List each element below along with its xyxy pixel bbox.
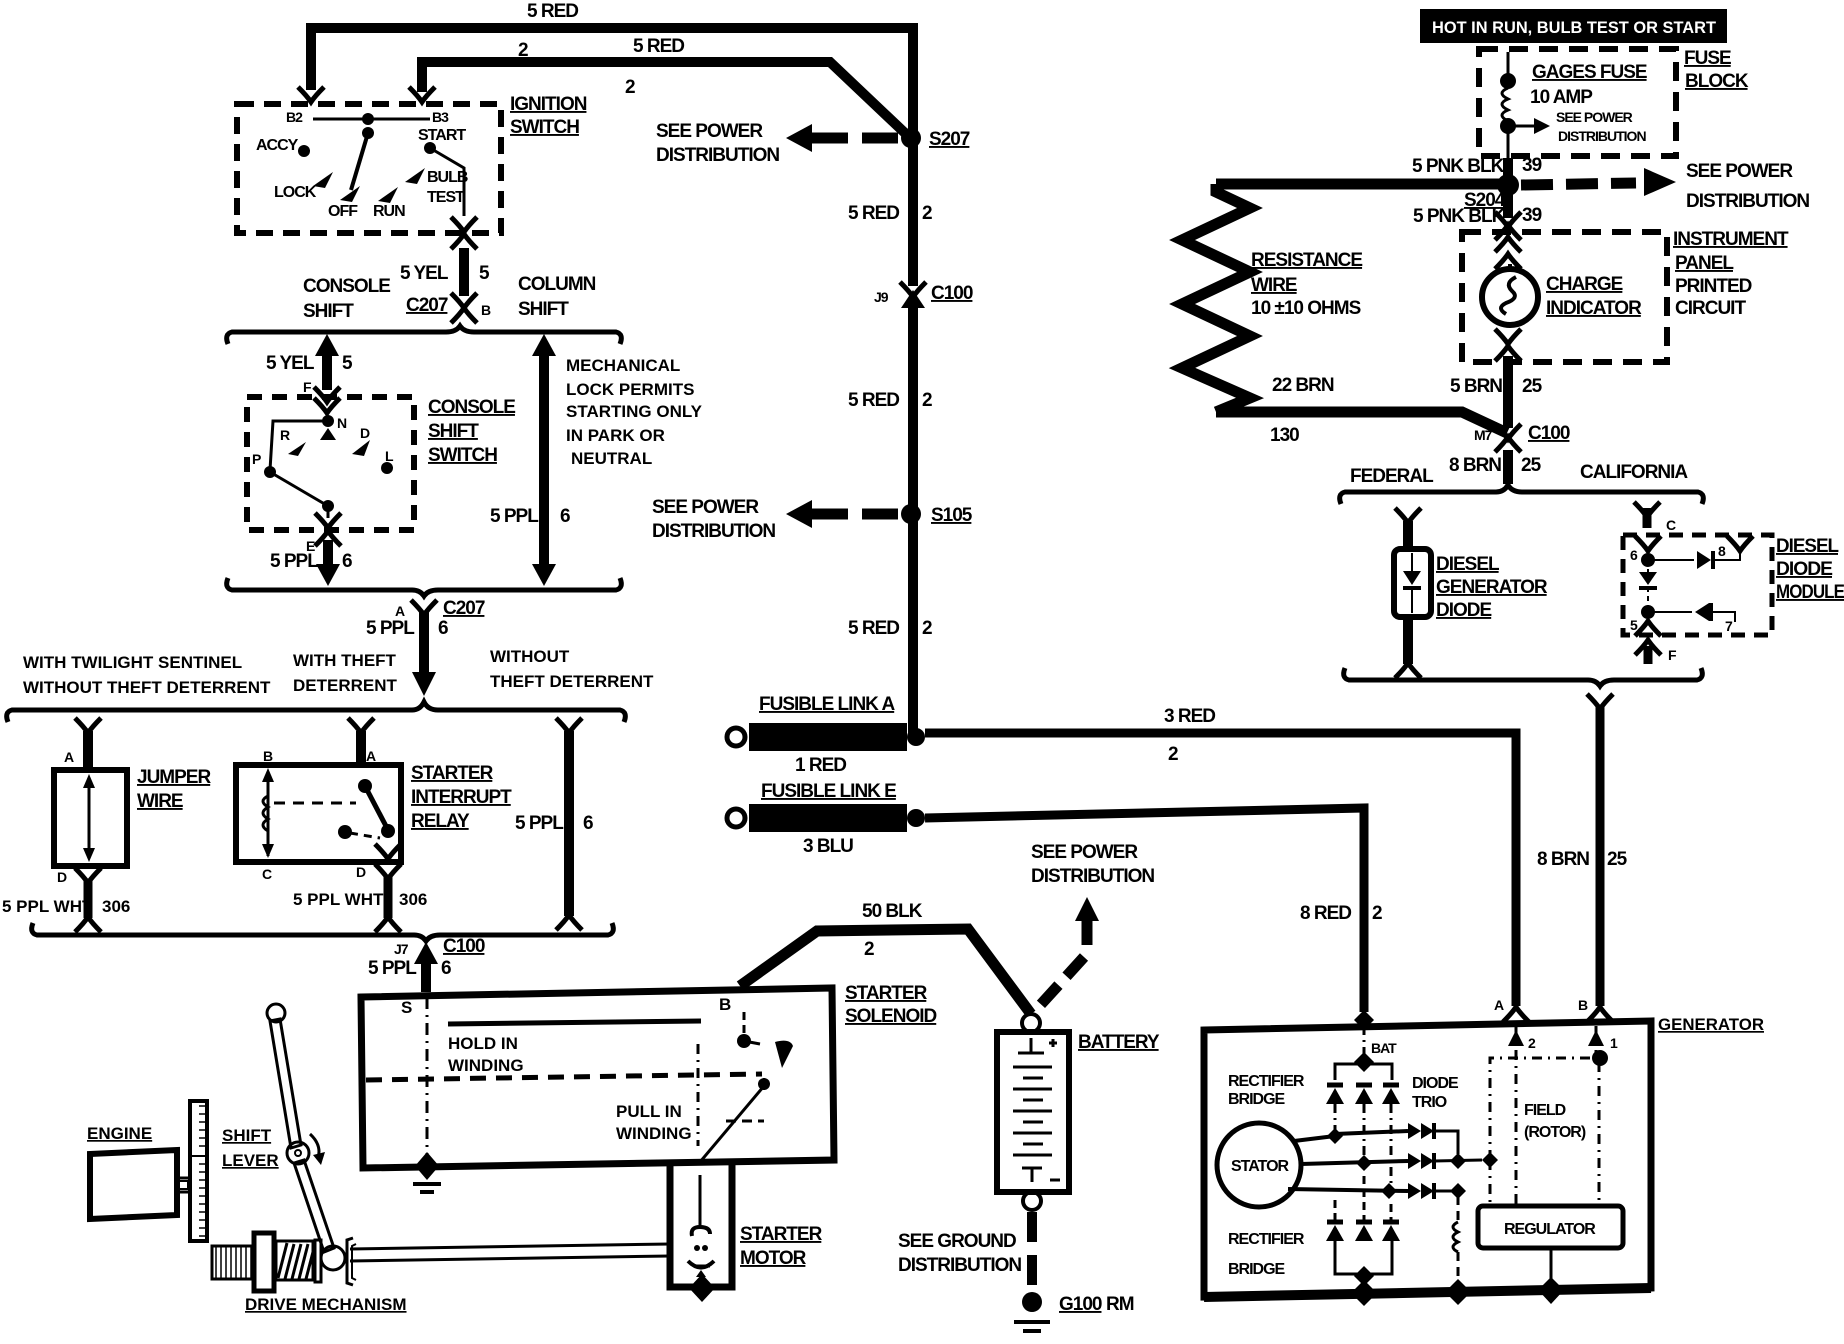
gages fuse element bbox=[1502, 88, 1508, 121]
fuse bottom node bbox=[1500, 118, 1516, 134]
ignition rotor node 2 bbox=[362, 127, 374, 139]
svg-text:FUSE: FUSE bbox=[1684, 48, 1731, 69]
svg-text:5 RED: 5 RED bbox=[848, 390, 899, 411]
svg-text:TRIO: TRIO bbox=[1412, 1094, 1447, 1111]
svg-text:WINDING: WINDING bbox=[616, 1124, 692, 1143]
svg-text:BLOCK: BLOCK bbox=[1685, 71, 1749, 92]
starter solenoid box bbox=[361, 988, 834, 1168]
N contact dot bbox=[322, 415, 334, 427]
svg-text:6: 6 bbox=[583, 813, 593, 834]
phase line 1 dash bbox=[1334, 1104, 1337, 1130]
wire 5 PPL below console switch bbox=[323, 540, 333, 576]
terminal B arrowhead bbox=[1588, 1030, 1604, 1046]
wire 5 PPL column shift (tall) bbox=[539, 344, 549, 576]
connector relay to bracket bbox=[375, 917, 401, 932]
svg-text:S207: S207 bbox=[929, 129, 970, 150]
connector at box bottom bbox=[315, 513, 341, 528]
svg-text:RELAY: RELAY bbox=[411, 811, 470, 832]
pull-in dashed horizontal bbox=[726, 1120, 764, 1123]
connector without-theft top bbox=[556, 718, 582, 733]
relay coil line bbox=[267, 772, 270, 856]
see power distribution arrow at S105 bbox=[786, 500, 812, 528]
connector at B3 bbox=[409, 87, 435, 102]
svg-text:STARTING ONLY: STARTING ONLY bbox=[566, 402, 703, 421]
svg-text:DIESEL: DIESEL bbox=[1776, 536, 1839, 557]
charge indicator bulb circle bbox=[1482, 269, 1538, 325]
relay aux contact dot bbox=[338, 825, 352, 839]
ignition rotor arm to OFF bbox=[351, 133, 368, 190]
resistance wire zigzag bbox=[1182, 184, 1250, 412]
bulb lead top bbox=[1508, 264, 1512, 270]
svg-text:B3: B3 bbox=[432, 109, 449, 125]
BULB TEST mark bbox=[405, 168, 425, 184]
connector california branch bbox=[1634, 502, 1660, 517]
B contact dot bbox=[737, 1034, 751, 1048]
arrowhead up column wire bbox=[532, 334, 556, 356]
svg-text:5 PPL: 5 PPL bbox=[490, 506, 539, 527]
svg-text:DRIVE MECHANISM: DRIVE MECHANISM bbox=[245, 1295, 407, 1314]
connector jumper bottom bbox=[75, 868, 101, 883]
plunger line bbox=[700, 1086, 764, 1162]
connector inside panel top bbox=[1495, 237, 1521, 252]
svg-text:B: B bbox=[263, 748, 273, 764]
svg-text:6: 6 bbox=[342, 551, 352, 572]
svg-text:5 BRN: 5 BRN bbox=[1450, 376, 1502, 397]
svg-text:25: 25 bbox=[1521, 455, 1542, 476]
drive mechanism collar bbox=[254, 1233, 274, 1291]
svg-text:RECTIFIER: RECTIFIER bbox=[1228, 1073, 1305, 1090]
sense resistor squiggle bbox=[1453, 1222, 1458, 1252]
connector below bulb bbox=[1495, 329, 1521, 344]
connector to generator B wire bbox=[1587, 694, 1613, 709]
svg-text:5 PPL WHT: 5 PPL WHT bbox=[2, 897, 93, 916]
svg-text:22 BRN: 22 BRN bbox=[1272, 375, 1334, 396]
svg-text:2: 2 bbox=[922, 203, 932, 224]
svg-text:C207: C207 bbox=[406, 295, 448, 316]
svg-text:5 YEL: 5 YEL bbox=[400, 263, 449, 284]
svg-text:GAGES FUSE: GAGES FUSE bbox=[1532, 62, 1647, 83]
engine box bbox=[90, 1150, 177, 1219]
connector at B2 bbox=[298, 87, 324, 102]
svg-text:SHIFT: SHIFT bbox=[303, 301, 354, 322]
see power arrow inside fuse box bbox=[1512, 125, 1538, 128]
svg-text:THEFT DETERRENT: THEFT DETERRENT bbox=[490, 672, 654, 691]
rectifier top bracket bbox=[1335, 1064, 1392, 1080]
sense line dash to resistor bbox=[1457, 1196, 1460, 1222]
shift lever pivot bbox=[287, 1142, 309, 1164]
svg-text:WIRE: WIRE bbox=[1251, 275, 1297, 296]
wire 3 RED link A to generator A bbox=[925, 733, 1516, 1006]
rectifier bottom diode 3 bbox=[1383, 1220, 1399, 1225]
ground node dot bbox=[1022, 1292, 1042, 1312]
svg-text:3 BLU: 3 BLU bbox=[803, 836, 853, 857]
wire 5 PPL without theft bbox=[564, 731, 574, 916]
ignition switch box (dashed) bbox=[237, 104, 501, 233]
svg-text:WINDING: WINDING bbox=[448, 1056, 524, 1075]
motor ground diamond bbox=[689, 1274, 715, 1302]
wire 5 PPL WHT (jumper) bbox=[84, 880, 93, 918]
phase 3 end diamond bbox=[1450, 1183, 1466, 1199]
START contact dot bbox=[424, 142, 436, 154]
fusible link E eyelet bbox=[727, 809, 745, 827]
junction S105 bbox=[901, 504, 921, 524]
connector at console switch box top bbox=[314, 387, 340, 402]
svg-text:DIODE: DIODE bbox=[1436, 600, 1492, 621]
svg-text:BRIDGE: BRIDGE bbox=[1228, 1091, 1286, 1108]
instrument panel box (dashed) bbox=[1462, 232, 1667, 362]
wire 5 RED from ignition B3 to S207 bbox=[422, 62, 906, 134]
svg-text:MECHANICAL: MECHANICAL bbox=[566, 356, 680, 375]
relay dashed link bbox=[274, 802, 356, 805]
wire N to P bbox=[270, 421, 328, 470]
svg-text:306: 306 bbox=[102, 897, 130, 916]
D position mark bbox=[352, 440, 370, 456]
svg-text:SWITCH: SWITCH bbox=[428, 445, 497, 466]
svg-text:25: 25 bbox=[1522, 376, 1543, 397]
svg-text:D: D bbox=[57, 869, 67, 885]
rotor contact diamond bbox=[320, 428, 336, 440]
regulator ground lead bbox=[1550, 1248, 1553, 1286]
sense line dash lower bbox=[1457, 1252, 1460, 1286]
svg-text:39: 39 bbox=[1522, 205, 1542, 226]
BAT dash-dot lead bbox=[1363, 1026, 1366, 1056]
phase 2 diamond bbox=[1356, 1155, 1372, 1171]
wire from START to C207 bbox=[430, 148, 464, 216]
pull-in dash-dot vertical bbox=[697, 1044, 700, 1146]
rectifier top diode 3 bbox=[1383, 1083, 1399, 1088]
drive plate bbox=[315, 1240, 321, 1282]
svg-text:ENGINE: ENGINE bbox=[87, 1124, 152, 1143]
phase line 3 dash bbox=[1390, 1104, 1393, 1184]
svg-text:5: 5 bbox=[479, 263, 490, 284]
field box dashed bbox=[1490, 1058, 1599, 1160]
svg-text:J9: J9 bbox=[874, 289, 889, 305]
R position mark bbox=[288, 442, 306, 456]
flywheel bbox=[190, 1101, 207, 1241]
relay contact arm bbox=[365, 786, 387, 828]
svg-text:C: C bbox=[1666, 517, 1676, 533]
svg-text:FEDERAL: FEDERAL bbox=[1350, 466, 1434, 487]
wire to diode 1 bbox=[1648, 559, 1694, 561]
wire 8 BRN C100 to bracket bbox=[1503, 450, 1513, 484]
connector at box bottom (ignition output) bbox=[451, 217, 477, 232]
bottom diode leads dash bbox=[1334, 1200, 1337, 1220]
S line end diamond bbox=[415, 1152, 439, 1180]
wire 8 RED link E to generator BAT bbox=[925, 808, 1364, 1012]
svg-text:BATTERY: BATTERY bbox=[1078, 1032, 1160, 1053]
svg-text:FIELD: FIELD bbox=[1524, 1102, 1566, 1119]
junction S204 bbox=[1497, 174, 1519, 196]
svg-text:LOCK PERMITS: LOCK PERMITS bbox=[566, 380, 694, 399]
svg-text:2: 2 bbox=[1372, 903, 1382, 924]
svg-text:LEVER: LEVER bbox=[222, 1151, 279, 1170]
svg-text:SHIFT: SHIFT bbox=[518, 299, 569, 320]
phase line 2 dash bbox=[1363, 1104, 1366, 1156]
diode inside (lead) bbox=[1411, 553, 1413, 572]
connector federal branch bbox=[1395, 508, 1421, 523]
svg-text:C100: C100 bbox=[931, 283, 973, 304]
connector C207 (ignition to shift) bbox=[451, 293, 477, 308]
wire 5 PPL WHT (relay) bbox=[384, 876, 393, 918]
diode lead lower bbox=[1411, 588, 1413, 613]
svg-text:GENERATOR: GENERATOR bbox=[1436, 577, 1548, 598]
connector inside module bottom bbox=[1635, 621, 1661, 636]
arrowhead down bbox=[412, 672, 436, 696]
connector federal bottom bbox=[1395, 663, 1421, 678]
wire P to common bbox=[270, 472, 328, 506]
module middle diode (down) bbox=[1639, 572, 1657, 585]
svg-text:S105: S105 bbox=[931, 505, 973, 526]
svg-text:C: C bbox=[262, 866, 272, 882]
BAT junction diamond bbox=[1354, 1052, 1374, 1072]
contact lower dot bbox=[758, 1078, 770, 1090]
hold in winding top line bbox=[448, 1021, 701, 1024]
drive mechanism splined shaft bbox=[212, 1246, 254, 1279]
svg-text:3 RED: 3 RED bbox=[1164, 706, 1215, 727]
module node upper bbox=[1641, 553, 1655, 567]
svg-text:2: 2 bbox=[1168, 744, 1178, 765]
svg-text:DIODE: DIODE bbox=[1776, 559, 1832, 580]
wire 5 YEL ignition to C207 bbox=[459, 248, 469, 296]
svg-text:J7: J7 bbox=[394, 941, 409, 957]
svg-text:5 YEL: 5 YEL bbox=[266, 353, 315, 374]
fusible link A body bbox=[749, 723, 907, 751]
starter motor box bbox=[670, 1161, 732, 1287]
svg-text:2: 2 bbox=[922, 390, 932, 411]
ACCY contact dot bbox=[298, 145, 310, 157]
svg-text:DIODE: DIODE bbox=[1412, 1075, 1459, 1092]
svg-text:PULL IN: PULL IN bbox=[616, 1102, 682, 1121]
connector without-theft bottom bbox=[556, 915, 582, 930]
svg-text:6: 6 bbox=[438, 618, 448, 639]
see power distribution dashed arrow (S204) bbox=[1521, 183, 1636, 185]
rectifier top diode 2 bbox=[1356, 1083, 1372, 1088]
wire 5 PPL to solenoid with up arrow bbox=[421, 952, 431, 992]
regulator ground diamond bbox=[1539, 1278, 1563, 1304]
svg-text:WITH THEFT: WITH THEFT bbox=[293, 651, 397, 670]
jumper wire box bbox=[54, 770, 127, 866]
svg-text:IGNITION: IGNITION bbox=[510, 94, 587, 115]
svg-text:GENERATOR: GENERATOR bbox=[1658, 1015, 1764, 1034]
svg-text:R: R bbox=[280, 427, 290, 443]
svg-text:5 PNK BLK: 5 PNK BLK bbox=[1412, 156, 1505, 177]
connector relay bottom inside bbox=[375, 844, 401, 859]
svg-text:5 PNK BLK: 5 PNK BLK bbox=[1413, 206, 1506, 227]
B terminal dashes bbox=[743, 1012, 746, 1036]
svg-text:D: D bbox=[356, 864, 366, 880]
lead to bottom bus bbox=[1363, 1276, 1366, 1292]
svg-text:5 PPL: 5 PPL bbox=[515, 813, 564, 834]
see power distribution arrow at S207 bbox=[786, 124, 812, 152]
diode triangle bbox=[1403, 571, 1421, 585]
svg-text:50 BLK: 50 BLK bbox=[862, 901, 923, 922]
terminal A arrowhead bbox=[1508, 1030, 1524, 1046]
svg-text:5 PPL: 5 PPL bbox=[368, 958, 417, 979]
svg-text:A: A bbox=[366, 748, 376, 764]
svg-text:HOT IN RUN, BULB TEST OR START: HOT IN RUN, BULB TEST OR START bbox=[1432, 18, 1717, 37]
svg-text:RECTIFIER: RECTIFIER bbox=[1228, 1231, 1305, 1248]
svg-text:STARTER: STARTER bbox=[845, 983, 928, 1004]
svg-text:LOCK: LOCK bbox=[274, 184, 317, 201]
svg-text:6: 6 bbox=[560, 506, 570, 527]
svg-text:2: 2 bbox=[625, 77, 635, 98]
svg-text:STATOR: STATOR bbox=[1231, 1158, 1290, 1175]
connector pin 8 bbox=[1727, 536, 1753, 551]
svg-text:SWITCH: SWITCH bbox=[510, 117, 579, 138]
wire to diesel generator diode bbox=[1403, 521, 1413, 550]
svg-text:130: 130 bbox=[1270, 425, 1299, 446]
svg-text:WITHOUT THEFT DETERRENT: WITHOUT THEFT DETERRENT bbox=[23, 678, 271, 697]
shift lever lower arm bbox=[294, 1160, 334, 1252]
junction S207 bbox=[901, 128, 921, 148]
diode trio D1 bbox=[1408, 1123, 1421, 1139]
phase 1 to common bbox=[1434, 1131, 1458, 1154]
svg-text:C100: C100 bbox=[443, 936, 485, 957]
phase 2 to trio common bbox=[1434, 1160, 1482, 1161]
pivot motion arc arrow bbox=[310, 1134, 319, 1158]
connector relay top bbox=[348, 718, 374, 733]
svg-text:C100: C100 bbox=[1528, 423, 1570, 444]
svg-text:S: S bbox=[401, 998, 412, 1017]
drive ball bbox=[321, 1246, 345, 1270]
bus ground diamond 2 bbox=[1445, 1279, 1471, 1305]
svg-text:CIRCUIT: CIRCUIT bbox=[1675, 298, 1746, 319]
fuse top node bbox=[1500, 73, 1516, 89]
wire common to connector bbox=[327, 506, 330, 518]
module diode 2 bbox=[1695, 603, 1709, 621]
svg-text:5 RED: 5 RED bbox=[633, 36, 684, 57]
S terminal dash-dot line bbox=[426, 997, 429, 1158]
svg-text:N: N bbox=[337, 415, 347, 431]
svg-text:M7: M7 bbox=[1474, 427, 1493, 443]
regulator box bbox=[1478, 1206, 1623, 1248]
terminal A lead dash bbox=[1515, 1026, 1518, 1204]
svg-text:START: START bbox=[418, 127, 466, 144]
svg-text:DISTRIBUTION: DISTRIBUTION bbox=[1031, 866, 1154, 887]
wire 5 YEL bracket to console shift switch bbox=[322, 344, 332, 390]
wire diode1 to pin 8 bbox=[1713, 550, 1740, 560]
OFF position arrowhead bbox=[340, 186, 360, 202]
svg-text:DISTRIBUTION: DISTRIBUTION bbox=[1686, 191, 1809, 212]
rectifier bottom bracket bbox=[1335, 1241, 1392, 1274]
P contact dot bbox=[264, 466, 276, 478]
engine coupling stub bbox=[177, 1177, 190, 1180]
connector inside box top bbox=[314, 398, 340, 413]
drive fork bracket bbox=[347, 1238, 353, 1285]
fusible link A junction dot bbox=[907, 728, 925, 746]
fuse feed line bbox=[1507, 52, 1510, 80]
starter interrupt relay box bbox=[236, 765, 401, 862]
fusible link E body bbox=[749, 804, 907, 832]
svg-text:BULB: BULB bbox=[427, 169, 468, 186]
svg-text:39: 39 bbox=[1522, 155, 1542, 176]
wire resistance to S204 bbox=[1216, 179, 1508, 190]
battery top terminal circle bbox=[1022, 1014, 1040, 1032]
svg-text:B: B bbox=[481, 302, 491, 318]
svg-text:REGULATOR: REGULATOR bbox=[1504, 1221, 1596, 1238]
svg-text:NEUTRAL: NEUTRAL bbox=[571, 449, 652, 468]
svg-text:STARTER: STARTER bbox=[740, 1224, 823, 1245]
svg-text:A: A bbox=[1494, 997, 1504, 1013]
wire 5 RED from ignition B2 to S207 bbox=[311, 28, 913, 140]
ignition rotor node on line bbox=[362, 113, 374, 125]
rectifier top diode 1 bbox=[1327, 1083, 1343, 1088]
svg-text:BAT: BAT bbox=[1371, 1040, 1397, 1056]
LOCK position mark bbox=[313, 172, 333, 188]
drive mechanism helix bbox=[276, 1241, 313, 1280]
svg-text:SEE POWER: SEE POWER bbox=[652, 497, 759, 518]
svg-text:G100: G100 bbox=[1059, 1294, 1102, 1315]
bracket theft deterrent options bbox=[7, 702, 626, 722]
connector J9 C100 bbox=[900, 282, 926, 297]
solenoid ground mark bbox=[413, 1182, 441, 1186]
relay contact node bbox=[381, 824, 395, 838]
svg-text:2: 2 bbox=[922, 618, 932, 639]
svg-text:P: P bbox=[252, 451, 261, 467]
connector generator B bbox=[1587, 1007, 1613, 1022]
svg-text:SOLENOID: SOLENOID bbox=[845, 1006, 937, 1027]
svg-text:A: A bbox=[64, 749, 74, 765]
svg-text:RUN: RUN bbox=[373, 203, 405, 220]
field corner dot bbox=[1592, 1050, 1608, 1066]
module diode 1 (right) bbox=[1697, 551, 1711, 569]
arrowhead down column wire bbox=[532, 564, 556, 586]
svg-text:25: 25 bbox=[1607, 849, 1628, 870]
svg-text:5 PPL: 5 PPL bbox=[366, 618, 415, 639]
svg-text:DISTRIBUTION: DISTRIBUTION bbox=[656, 145, 779, 166]
svg-text:MODULE: MODULE bbox=[1776, 582, 1844, 603]
bracket below federal/california bbox=[1344, 668, 1703, 686]
relay aux dashed bbox=[350, 833, 380, 838]
stator phase wire 1 bbox=[1294, 1136, 1335, 1141]
svg-text:5: 5 bbox=[342, 353, 353, 374]
bottom bracket diamond bbox=[1354, 1266, 1374, 1286]
svg-text:5 RED: 5 RED bbox=[527, 1, 578, 22]
field feed diamond bbox=[1482, 1152, 1498, 1168]
svg-text:B: B bbox=[719, 995, 731, 1014]
svg-text:IN PARK OR: IN PARK OR bbox=[566, 426, 665, 445]
battery plus sign bbox=[1049, 1042, 1057, 1045]
svg-text:INSTRUMENT: INSTRUMENT bbox=[1673, 229, 1789, 250]
shift lever knob bbox=[267, 1004, 285, 1022]
diesel diode module box (dashed) bbox=[1623, 535, 1772, 635]
stator circle bbox=[1217, 1123, 1301, 1207]
svg-text:STARTER: STARTER bbox=[411, 763, 494, 784]
connector california bottom bbox=[1635, 640, 1661, 655]
svg-text:SEE POWER: SEE POWER bbox=[1686, 161, 1793, 182]
battery bottom terminal circle bbox=[1023, 1192, 1041, 1210]
diode trio D3 bbox=[1408, 1183, 1421, 1199]
svg-text:PANEL: PANEL bbox=[1675, 253, 1734, 274]
L contact dot bbox=[381, 462, 393, 474]
svg-text:CONSOLE: CONSOLE bbox=[428, 397, 515, 418]
svg-text:8 BRN: 8 BRN bbox=[1537, 849, 1589, 870]
relay contact fixed dot bbox=[358, 779, 372, 793]
diesel generator diode box bbox=[1394, 549, 1431, 617]
svg-text:DETERRENT: DETERRENT bbox=[293, 676, 398, 695]
phase 1 to diode trio bbox=[1335, 1131, 1408, 1134]
wire 22 BRN resistance to C100 bbox=[1216, 412, 1507, 433]
generator box bbox=[1204, 1021, 1651, 1297]
svg-text:INDICATOR: INDICATOR bbox=[1546, 298, 1642, 319]
connector C207 lower bbox=[411, 600, 437, 615]
svg-text:DIESEL: DIESEL bbox=[1436, 554, 1500, 575]
svg-text:B: B bbox=[1578, 997, 1588, 1013]
bracket below shift switches bbox=[227, 578, 622, 596]
svg-text:SHIFT: SHIFT bbox=[428, 421, 479, 442]
svg-text:BRIDGE: BRIDGE bbox=[1228, 1261, 1286, 1278]
svg-text:SEE POWER: SEE POWER bbox=[656, 121, 763, 142]
